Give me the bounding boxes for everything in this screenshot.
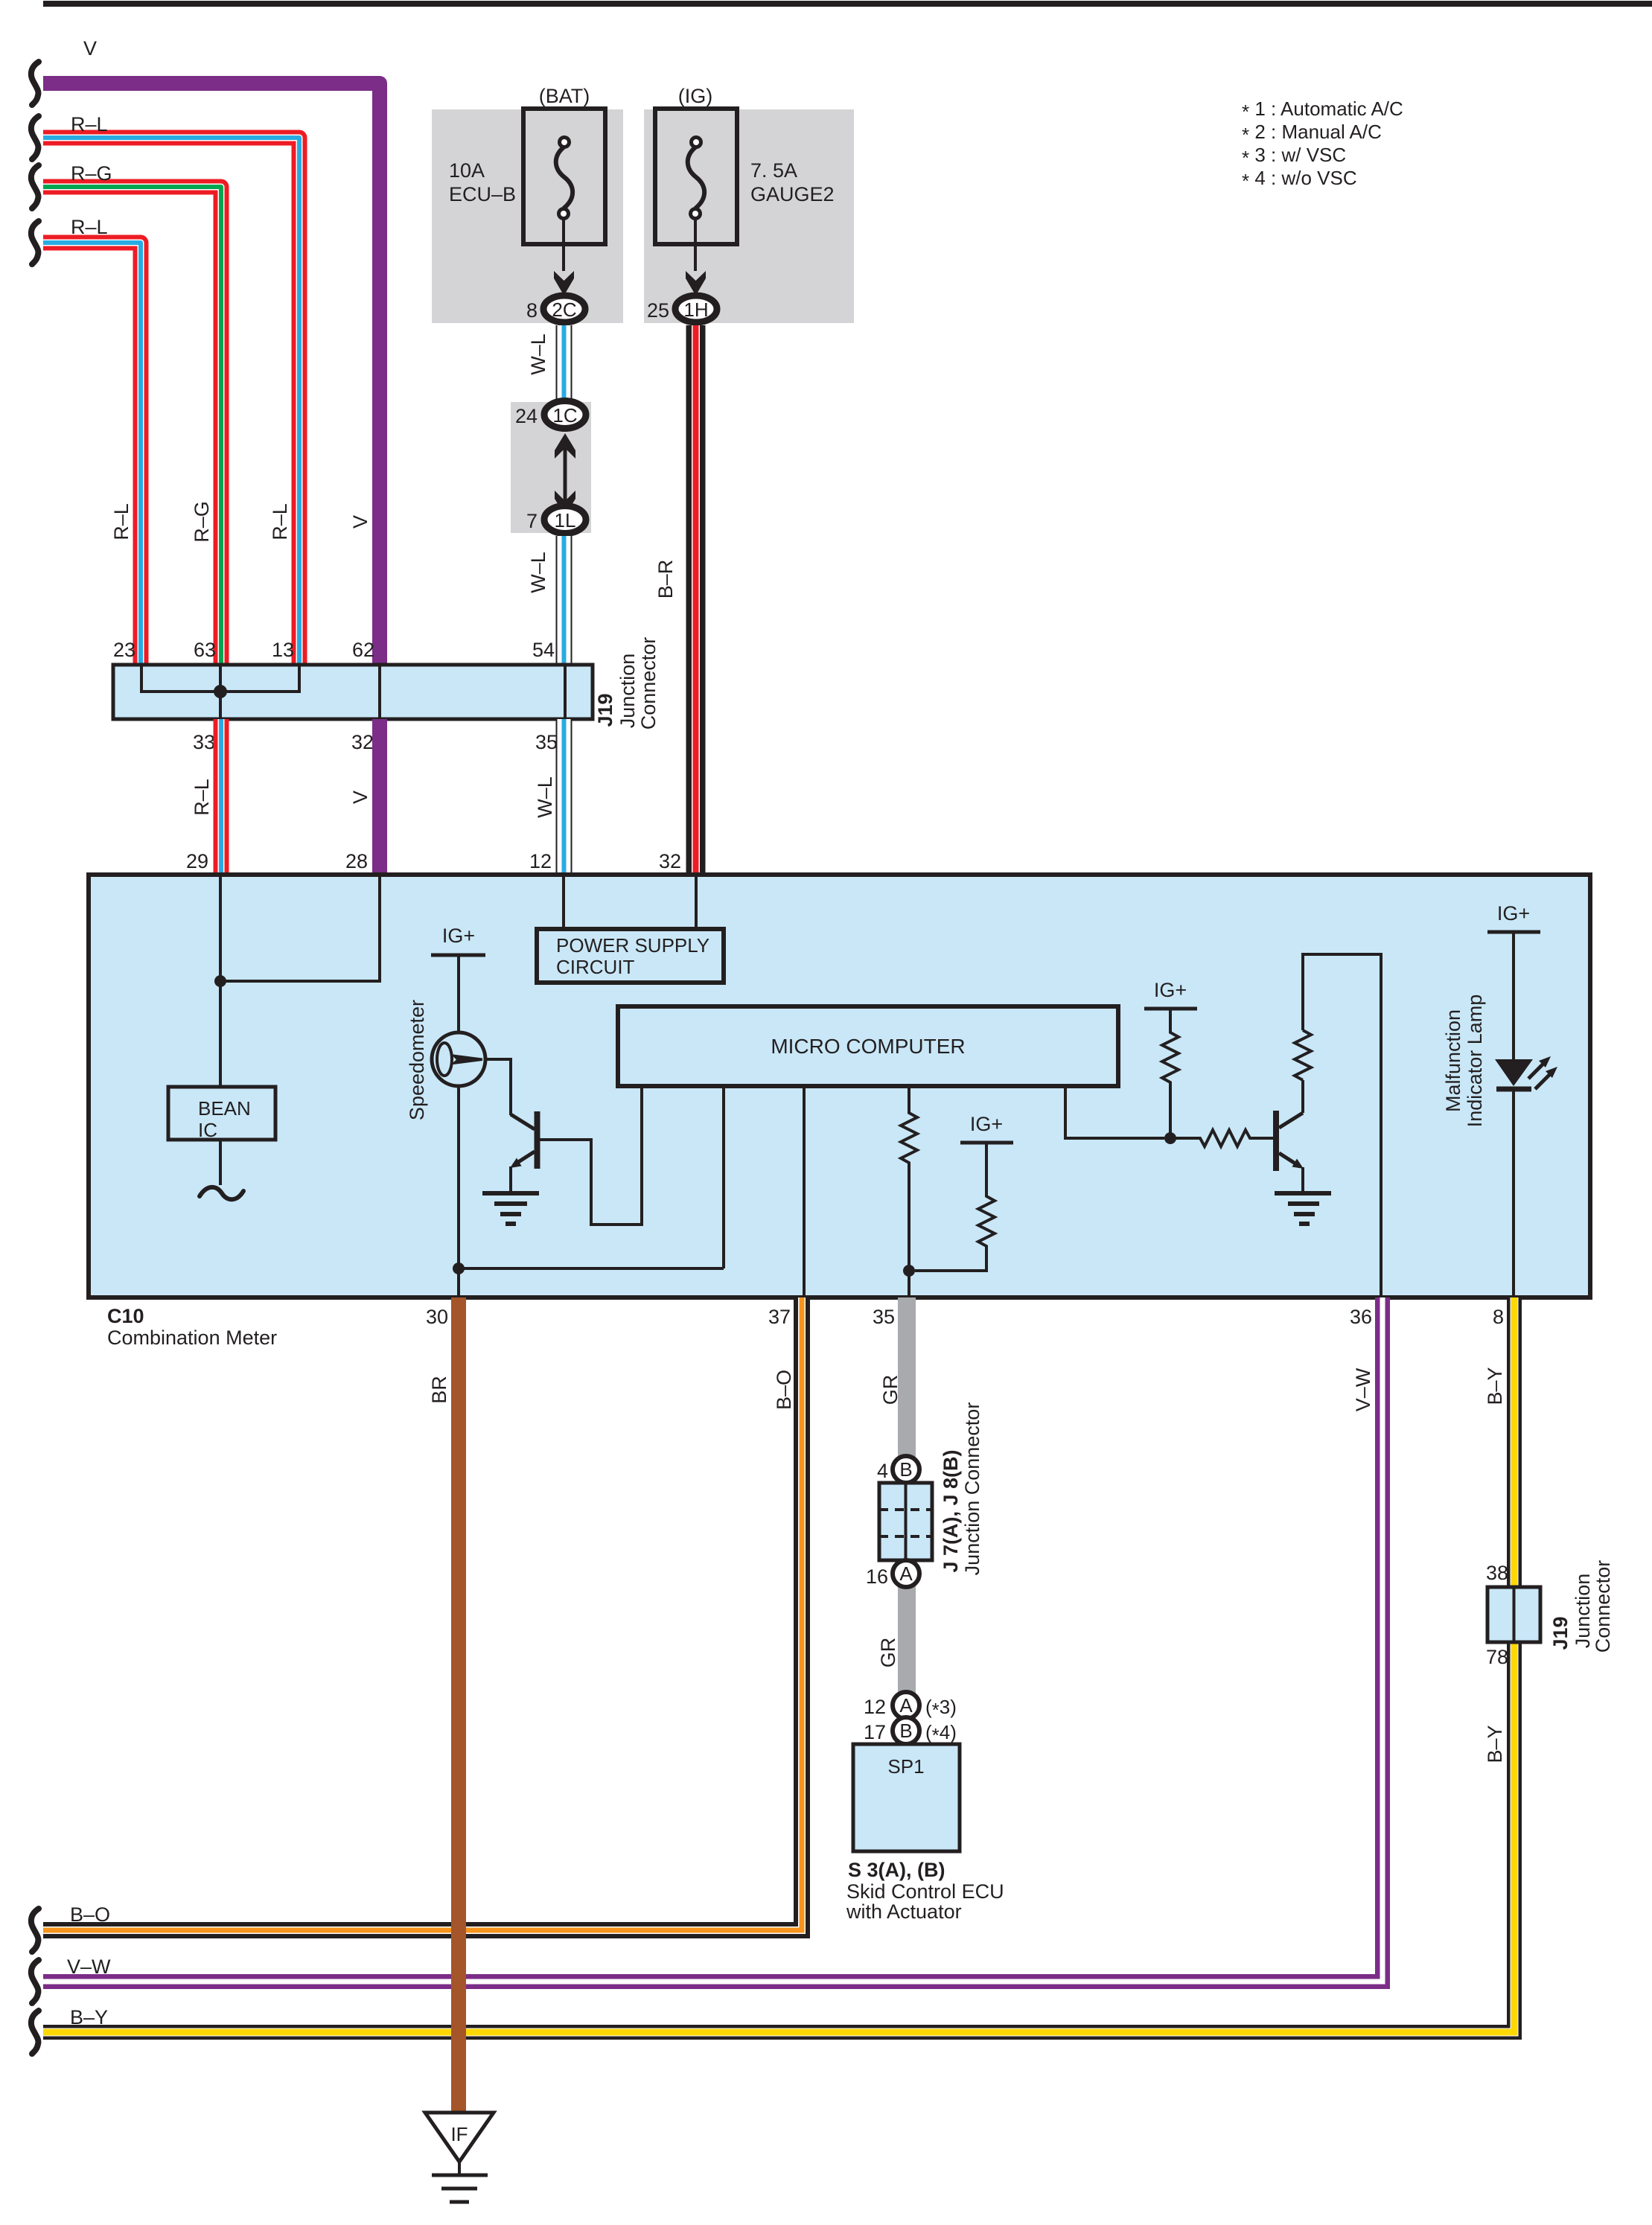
internal wire pins 29/28 to BEAN IC [220, 877, 380, 1087]
brace R-L 1 [31, 116, 39, 159]
svg-text:R–G: R–G [71, 162, 112, 185]
svg-text:CIRCUIT: CIRCUIT [556, 956, 635, 978]
resistor R2 (IG+ pullup to 35) [915, 1143, 995, 1271]
svg-text:J19: J19 [594, 693, 616, 727]
wire GR pin 35 to skid control ECU [898, 1297, 916, 1745]
svg-text:13: 13 [272, 639, 294, 661]
node dot Q2 base [1164, 1132, 1176, 1144]
svg-text:2C: 2C [552, 299, 576, 321]
fuse block shading IG [644, 109, 854, 323]
junction connector J19 lower [1487, 1587, 1540, 1642]
wire R-L (to pin 13) [43, 138, 299, 665]
svg-text:36: 36 [1350, 1306, 1372, 1328]
brace V [31, 62, 39, 105]
svg-text:Junction Connector: Junction Connector [961, 1402, 983, 1576]
svg-text:35: 35 [873, 1306, 895, 1328]
wire V (to pin 62) [43, 83, 380, 665]
svg-text:A: A [899, 1694, 913, 1717]
brace B-Y [31, 2011, 39, 2054]
wire V-W pin 36 [43, 1297, 1382, 1982]
svg-text:Speedometer: Speedometer [406, 1000, 428, 1120]
wire W-L J19 to meter pin 12 [556, 719, 573, 875]
node dot 35 [903, 1265, 915, 1277]
svg-text:10A: 10A [449, 159, 485, 182]
svg-text:B–Y: B–Y [1484, 1367, 1506, 1405]
svg-text:25: 25 [647, 299, 669, 322]
svg-text:32: 32 [351, 731, 374, 753]
connector circle A (J7) [893, 1560, 919, 1587]
transistor Q2 [1276, 1111, 1304, 1193]
power supply circuit feed wires [564, 877, 696, 930]
svg-text:R–L: R–L [191, 779, 213, 816]
svg-text:R–L: R–L [71, 216, 108, 238]
wire micro computer to pin 37 [803, 1088, 806, 1295]
svg-text:R–L: R–L [269, 503, 291, 540]
connector circle B (skid ECU 17) [893, 1717, 919, 1744]
wire speedometer to Q1 collector [485, 1059, 511, 1115]
connector 1H [675, 296, 717, 322]
svg-text:B–Y: B–Y [1484, 1725, 1506, 1763]
svg-text:1H: 1H [683, 299, 708, 321]
svg-text:Junction: Junction [616, 654, 639, 729]
svg-text:IG+: IG+ [970, 1113, 1003, 1135]
svg-text:(*3): (*3) [925, 1696, 957, 1721]
svg-text:V–W: V–W [67, 1956, 111, 1978]
svg-text:W–L: W–L [527, 552, 549, 593]
junction connector J7(A) J8(B) block [879, 1483, 932, 1560]
svg-text:B: B [899, 1720, 912, 1742]
svg-text:4: 4 [877, 1460, 888, 1482]
wire B-Y pin 8 [43, 1297, 1514, 2032]
svg-text:30: 30 [426, 1306, 448, 1328]
legend notes [1242, 98, 1403, 192]
connector 1L [544, 506, 586, 534]
LED malfunction indicator lamp [1495, 932, 1557, 1295]
svg-text:35: 35 [535, 731, 558, 753]
svg-text:BEAN: BEAN [198, 1097, 251, 1120]
svg-text:Connector: Connector [1592, 1560, 1614, 1653]
svg-text:(IG): (IG) [678, 85, 713, 107]
svg-text:B–O: B–O [773, 1370, 795, 1410]
wire speedometer to node 30 [457, 1086, 460, 1295]
svg-text:37: 37 [768, 1306, 791, 1328]
svg-text:* 4 : w/o VSC: * 4 : w/o VSC [1242, 167, 1357, 192]
svg-text:R–L: R–L [71, 113, 108, 135]
wire R-L (to pin 23) [43, 243, 141, 665]
svg-text:B–O: B–O [70, 1903, 110, 1926]
svg-text:W–L: W–L [527, 333, 549, 375]
brace V-W [31, 1960, 39, 2003]
svg-text:62: 62 [352, 639, 374, 661]
svg-text:A: A [899, 1562, 913, 1585]
svg-text:Junction: Junction [1572, 1574, 1594, 1649]
svg-text:GR: GR [877, 1638, 899, 1668]
resistor R4 (Q2 base) [1170, 1130, 1273, 1146]
connector 1C [544, 401, 586, 429]
skid control ECU SP1 box [853, 1744, 960, 1851]
svg-text:Skid Control ECU: Skid Control ECU [846, 1880, 1004, 1903]
ground Q1 [482, 1193, 539, 1224]
svg-text:* 1 : Automatic A/C: * 1 : Automatic A/C [1242, 98, 1403, 123]
svg-text:J19: J19 [1549, 1616, 1572, 1650]
connector circle A (skid ECU 12) [893, 1692, 919, 1719]
svg-text:8: 8 [1493, 1306, 1504, 1328]
brace B-O [31, 1909, 39, 1952]
wire B-O pin 37 to skid ECU branch [43, 1297, 802, 1930]
svg-text:R–L: R–L [110, 503, 133, 540]
svg-text:Combination Meter: Combination Meter [107, 1327, 277, 1349]
combination meter C10 box [89, 875, 1590, 1297]
resistor R1 (pin 35 pull) [901, 1088, 917, 1295]
svg-text:MICRO COMPUTER: MICRO COMPUTER [771, 1035, 965, 1058]
svg-text:(BAT): (BAT) [539, 85, 590, 107]
svg-text:IG+: IG+ [1154, 979, 1187, 1001]
wire Q2 collector to pin 36 [1303, 954, 1381, 1295]
svg-text:28: 28 [345, 850, 368, 872]
resistor R5 (Q2 collector) [1295, 1030, 1311, 1113]
svg-text:23: 23 [113, 639, 135, 661]
svg-text:* 3 : w/ VSC: * 3 : w/ VSC [1242, 144, 1346, 169]
svg-text:29: 29 [186, 850, 208, 872]
svg-text:Connector: Connector [637, 637, 660, 730]
wire W-L 1L to J19 [556, 536, 573, 666]
svg-text:B–Y: B–Y [70, 2006, 108, 2028]
svg-text:V: V [349, 515, 371, 529]
svg-text:ECU–B: ECU–B [449, 183, 516, 205]
svg-text:7: 7 [526, 510, 538, 532]
connector 2C [543, 296, 585, 322]
svg-text:B: B [899, 1458, 912, 1481]
svg-text:IG+: IG+ [442, 925, 475, 947]
double arrow between 1C and 1L [564, 447, 567, 502]
svg-text:with Actuator: with Actuator [846, 1900, 962, 1923]
arrow into connector 2C [554, 271, 574, 296]
svg-text:Indicator Lamp: Indicator Lamp [1464, 995, 1486, 1128]
wire Q1 base to micro computer [540, 1088, 642, 1225]
svg-text:Malfunction: Malfunction [1442, 1009, 1464, 1112]
wire BEAN IC to squiggle [219, 1140, 222, 1185]
wire micro computer to Q2 base node [1065, 1088, 1164, 1138]
svg-text:S 3(A), (B): S 3(A), (B) [848, 1859, 945, 1881]
svg-text:63: 63 [194, 639, 216, 661]
BEAN IC [168, 1087, 275, 1140]
svg-text:* 2 : Manual A/C: * 2 : Manual A/C [1242, 121, 1382, 146]
svg-text:32: 32 [659, 850, 681, 872]
svg-text:12: 12 [864, 1696, 886, 1718]
node dot 30 [453, 1262, 465, 1274]
ground IF [425, 2113, 494, 2202]
brace R-G [31, 165, 39, 208]
svg-text:17: 17 [864, 1721, 886, 1743]
squiggle terminator [200, 1187, 243, 1199]
connector circle B (J8) [893, 1456, 919, 1483]
svg-text:IC: IC [198, 1119, 217, 1141]
svg-text:V–W: V–W [1352, 1367, 1374, 1411]
wire W-L fuse to 1C [556, 325, 573, 403]
wire V J19 to meter pin 28 [372, 719, 387, 875]
transistor Q1 [510, 1111, 538, 1193]
brace R-L 2 [31, 221, 39, 264]
svg-text:16: 16 [866, 1565, 888, 1588]
svg-text:W–L: W–L [534, 776, 556, 818]
connector block shading 1C/1L [511, 402, 591, 533]
svg-text:78: 78 [1486, 1646, 1508, 1668]
fuse 7.5A GAUGE2 [655, 109, 737, 271]
resistor R3 (IG+ pullup to Q2 base) [1162, 1009, 1179, 1138]
svg-text:7. 5A: 7. 5A [750, 159, 797, 182]
svg-text:54: 54 [532, 639, 555, 661]
svg-text:J 7(A), J 8(B): J 7(A), J 8(B) [940, 1449, 962, 1572]
junction connector J19 [113, 665, 593, 719]
wire R-L J19 to meter pin 29 [214, 719, 229, 875]
fuse 10A ECU-B [523, 109, 605, 271]
svg-text:GR: GR [879, 1375, 902, 1405]
power supply circuit box [537, 929, 724, 983]
svg-text:V: V [349, 791, 371, 804]
svg-text:BR: BR [428, 1376, 450, 1404]
svg-text:12: 12 [529, 850, 552, 872]
fuse block shading BAT [432, 109, 623, 323]
svg-text:SP1: SP1 [887, 1755, 924, 1778]
node dot pins 29/28 [214, 975, 226, 987]
svg-text:GAUGE2: GAUGE2 [750, 183, 835, 205]
wire micro computer to node 30 [459, 1088, 724, 1268]
svg-text:IG+: IG+ [1497, 902, 1530, 925]
svg-text:33: 33 [193, 731, 215, 753]
svg-text:V: V [83, 37, 97, 60]
svg-text:B–R: B–R [654, 560, 677, 599]
wire BR pin 30 to ground IF [451, 1297, 466, 2113]
speedometer [432, 1032, 485, 1086]
wire R-G (to pin 63) [43, 187, 221, 665]
svg-text:C10: C10 [107, 1305, 144, 1327]
wire B-R 1H to meter pin 32 [686, 325, 706, 875]
svg-text:IF: IF [450, 2123, 468, 2145]
svg-text:1L: 1L [555, 509, 576, 531]
ground Q2 [1275, 1193, 1331, 1224]
svg-text:24: 24 [515, 405, 538, 427]
svg-text:8: 8 [526, 299, 538, 322]
svg-text:POWER SUPPLY: POWER SUPPLY [556, 934, 709, 957]
svg-text:1C: 1C [552, 404, 577, 427]
micro computer box [618, 1006, 1118, 1086]
arrow into connector 1H [686, 271, 706, 296]
svg-text:38: 38 [1486, 1562, 1508, 1584]
svg-text:R–G: R–G [191, 501, 213, 543]
